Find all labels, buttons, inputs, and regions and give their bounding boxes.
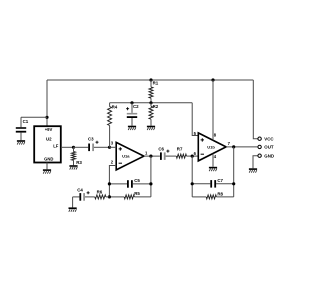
- node V+ junction pin8: [211, 78, 214, 81]
- svg-text:VCC: VCC: [264, 137, 274, 142]
- svg-text:+9V: +9V: [45, 127, 53, 132]
- terminal GND: [258, 154, 274, 159]
- wire U1a output: [144, 155, 160, 157]
- capacitor C7 feedback: [192, 178, 234, 187]
- terminal VCC: [258, 137, 274, 142]
- svg-text:R4: R4: [112, 104, 118, 109]
- resistor R5 feedback: [109, 191, 150, 199]
- node C5/output junction: [149, 182, 152, 185]
- node C7/output junction: [232, 182, 235, 185]
- svg-text:R2: R2: [153, 104, 159, 109]
- wire V+ riser to U2: [46, 80, 48, 126]
- op-amp U1a: [111, 140, 148, 170]
- ground under R3: [69, 165, 77, 169]
- ground under GND terminal: [249, 168, 257, 172]
- resistor R7: [176, 147, 198, 159]
- wire U1a pin2 to feedback: [109, 166, 116, 197]
- svg-text:U1a: U1a: [122, 154, 130, 159]
- node output junction: [232, 145, 235, 148]
- resistor R3: [72, 147, 83, 165]
- svg-text:GND: GND: [264, 154, 274, 159]
- wire output feedback leg: [233, 147, 235, 197]
- svg-text:OUT: OUT: [264, 145, 274, 150]
- wire U1b output to OUT: [226, 146, 257, 148]
- capacitor C4: [73, 187, 90, 200]
- svg-text:C3: C3: [88, 136, 94, 141]
- wire top V+ rail: [47, 79, 253, 81]
- wire U1a pin3 stub: [110, 146, 117, 148]
- svg-text:C5: C5: [134, 178, 140, 183]
- wire VCC drop from rail: [253, 80, 257, 139]
- svg-text:GND: GND: [44, 157, 53, 162]
- wire U1b pin5 from Vref: [192, 103, 198, 136]
- svg-text:R7: R7: [177, 147, 183, 152]
- svg-text:C4: C4: [77, 187, 83, 192]
- resistor R6: [85, 189, 109, 199]
- capacitor C2: [126, 103, 139, 126]
- svg-text:U2: U2: [46, 137, 52, 142]
- node LF output junction: [72, 146, 75, 149]
- svg-text:U1b: U1b: [207, 145, 215, 150]
- ground under C2: [128, 126, 136, 130]
- svg-text:C1: C1: [23, 119, 29, 124]
- svg-text:C7: C7: [217, 178, 223, 183]
- node R1/R2 junction top: [149, 78, 152, 81]
- wire Vref rail: [110, 102, 193, 104]
- wire C4 to ground: [72, 197, 74, 208]
- node R1/R2 mid junction: [149, 101, 152, 104]
- wire U2 GND pin: [46, 163, 48, 170]
- capacitor C3: [74, 136, 110, 151]
- ground under C4: [69, 207, 77, 211]
- resistor R2: [149, 103, 159, 126]
- node pin2/C5 junction: [108, 182, 111, 185]
- resistor R8 feedback: [192, 191, 234, 199]
- node U1a pin3 junction: [108, 146, 111, 149]
- ground under U1b pin4: [209, 167, 217, 171]
- node C2 junction: [130, 101, 133, 104]
- node V+ junction at U2: [45, 116, 48, 119]
- ground under U2: [43, 169, 51, 173]
- wire U1a feedback right leg: [150, 156, 152, 197]
- node U1b pin6 junction: [191, 155, 194, 158]
- resistor R1: [149, 80, 159, 103]
- ground under C1: [17, 140, 25, 144]
- capacitor C6 series: [158, 146, 176, 160]
- svg-text:R8: R8: [217, 191, 223, 196]
- svg-text:R1: R1: [153, 81, 159, 86]
- wire U1b pin8 power: [212, 80, 214, 140]
- node pin2/R5/R6 junction: [108, 195, 111, 198]
- ground under R2: [147, 126, 155, 130]
- op-amp U1b: [194, 131, 231, 161]
- resistor R4 bias: [108, 103, 118, 148]
- svg-text:R5: R5: [134, 191, 140, 196]
- wire U2 LF output: [61, 146, 74, 148]
- svg-text:C6: C6: [158, 146, 164, 151]
- svg-text:R6: R6: [97, 189, 103, 194]
- node pin6/C7 junction: [191, 182, 194, 185]
- node U1a output junction: [149, 155, 152, 158]
- capacitor C1: [16, 119, 29, 140]
- wire GND terminal to ground: [253, 156, 258, 169]
- IC U2 receiver block: [34, 126, 61, 162]
- svg-text:LF: LF: [53, 143, 59, 148]
- svg-text:C2: C2: [133, 104, 139, 109]
- svg-text:R3: R3: [76, 160, 82, 165]
- capacitor C5 feedback: [109, 178, 150, 188]
- wire U1b pin6 feedback leg: [191, 156, 193, 197]
- wire U1b pin4 to ground: [212, 154, 214, 167]
- terminal OUT: [258, 145, 274, 150]
- wire to C1: [21, 117, 47, 127]
